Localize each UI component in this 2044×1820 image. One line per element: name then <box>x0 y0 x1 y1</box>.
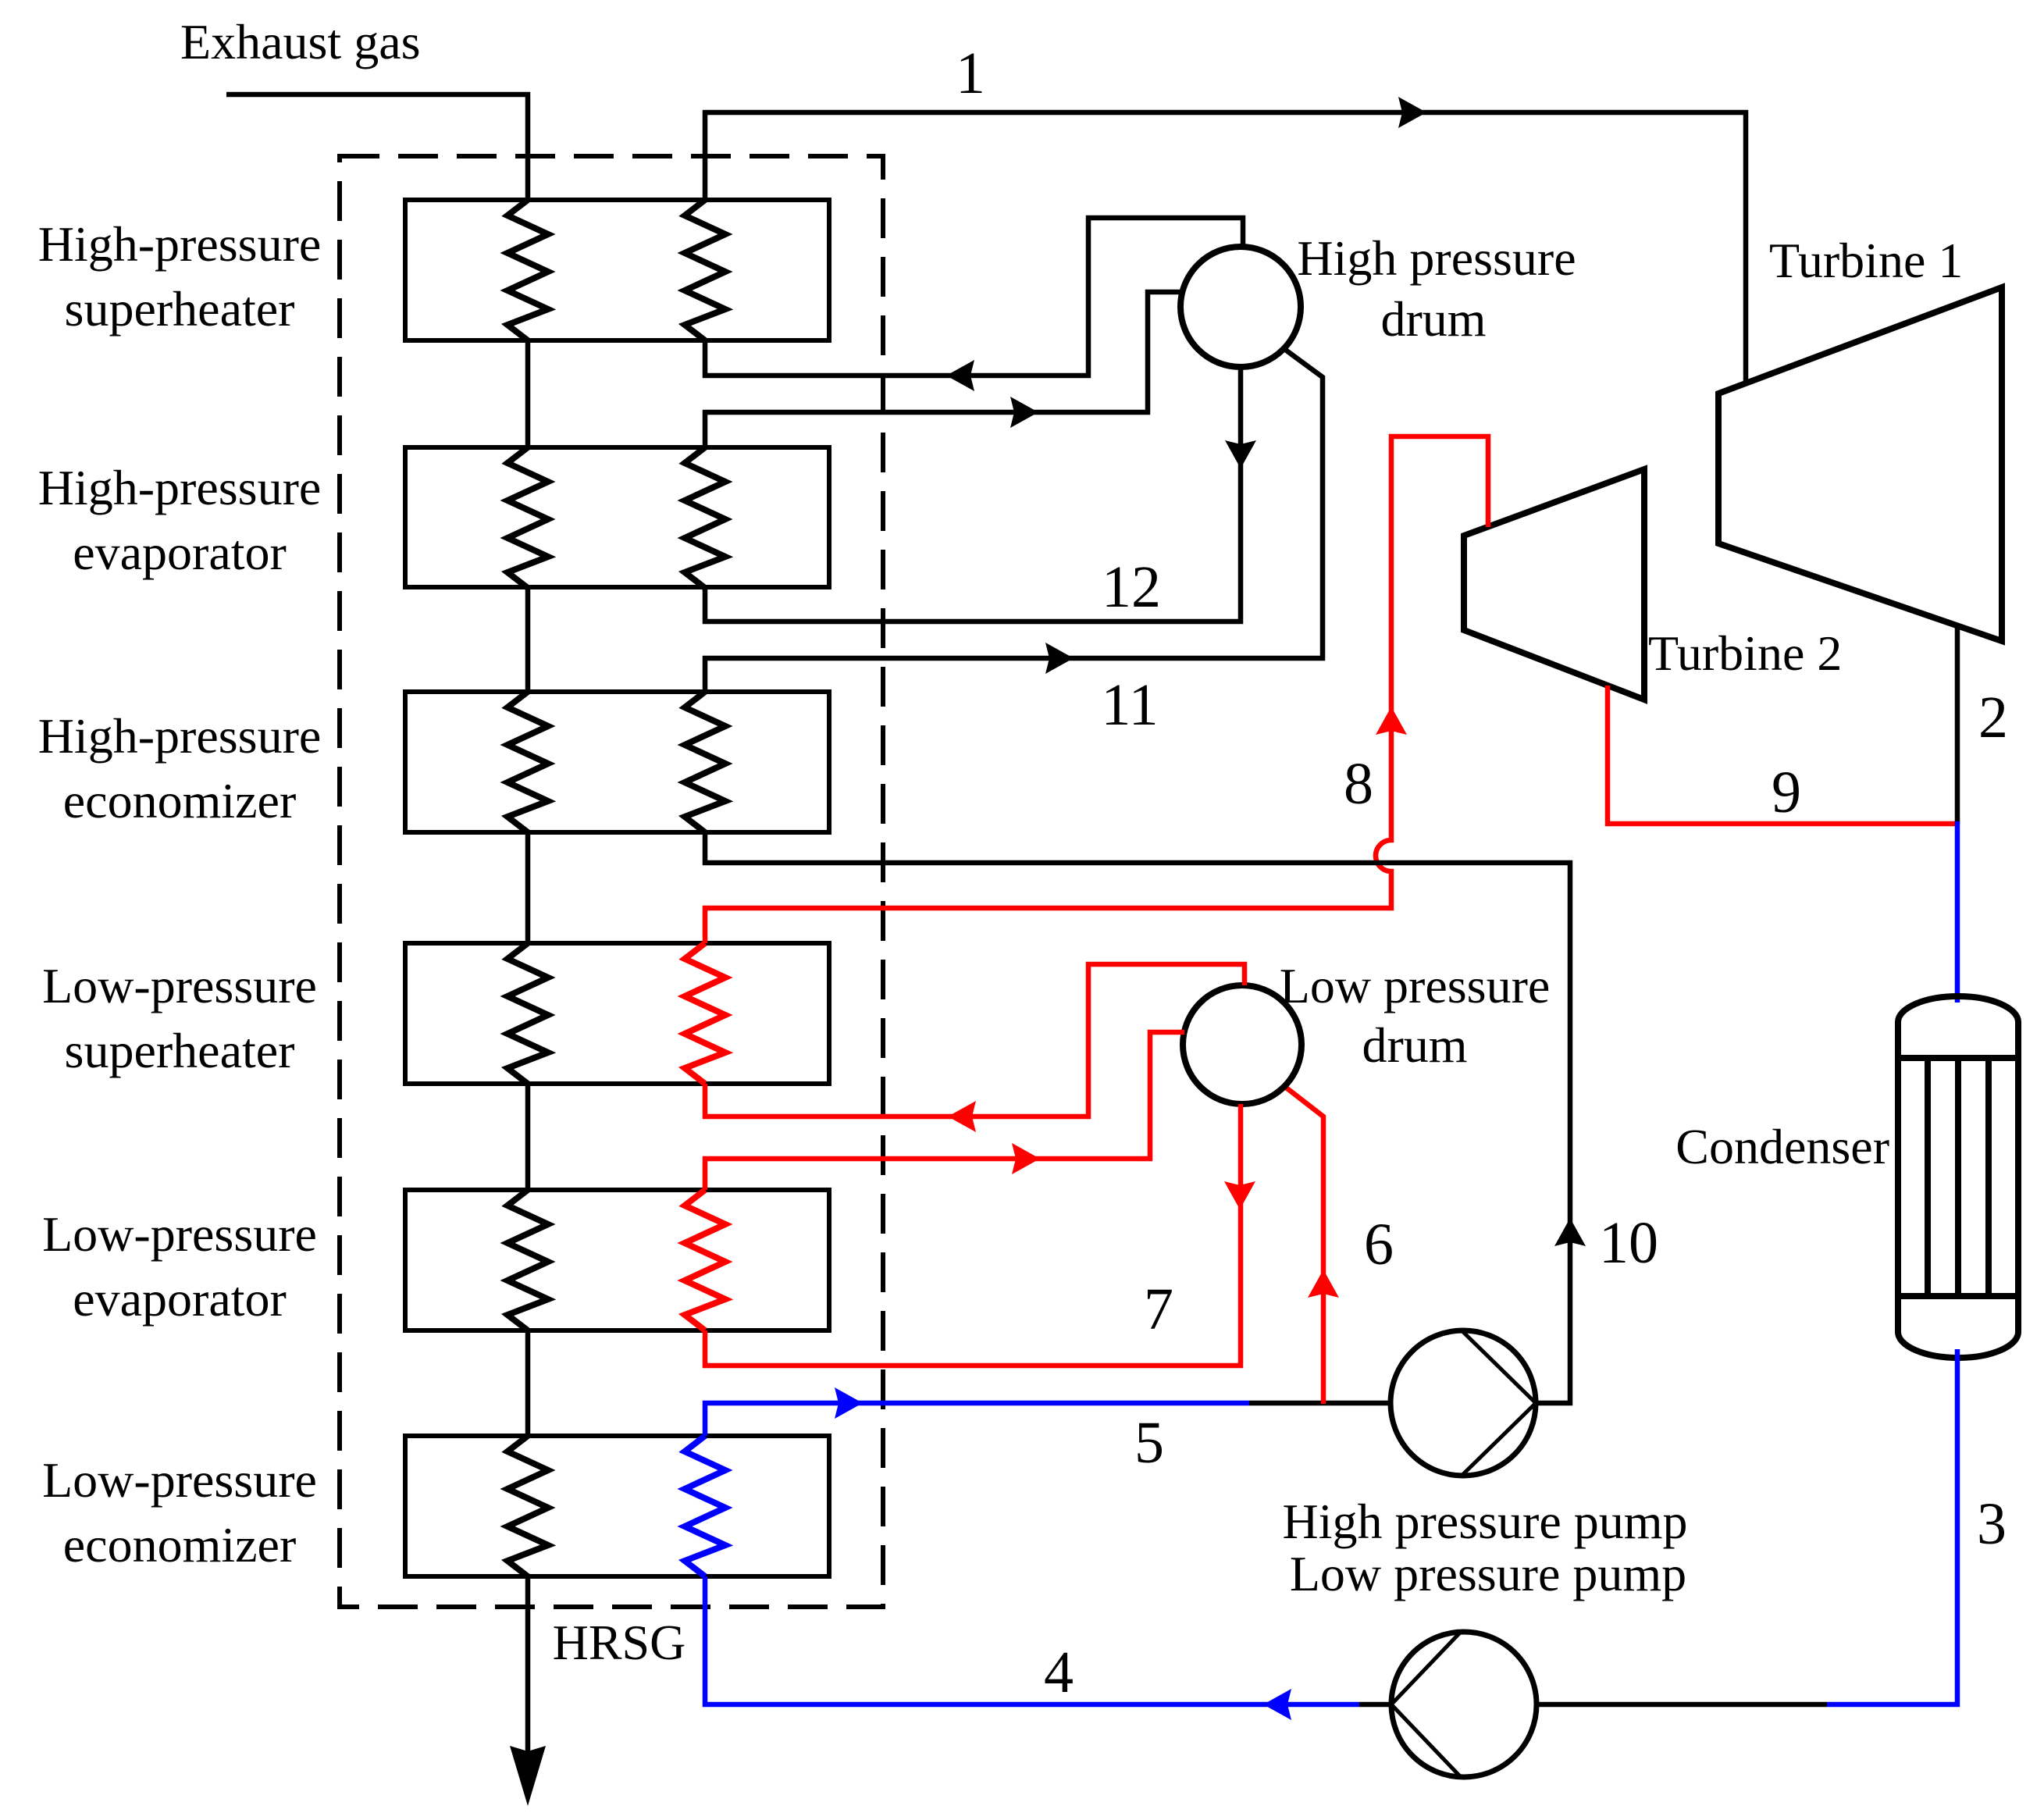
wire: LP riser evaporator to drum (red) <box>705 1032 1184 1190</box>
water coil in HP economizer <box>685 692 725 832</box>
wire: exhaust gas inlet <box>226 94 528 200</box>
gas coil in LP evaporator <box>507 1190 548 1330</box>
arrow: down on LP downcomer (red) <box>1224 1181 1255 1209</box>
wire: line 5 black segment into HP pump <box>1249 1401 1391 1406</box>
High pressure pump <box>1391 1330 1536 1476</box>
wire: condenser inlet (blue) <box>1955 821 1960 1003</box>
Low pressure drum <box>1183 985 1302 1104</box>
arrow: down on HP downcomer <box>1225 440 1256 468</box>
wire: line 4 black segment right of LP pump <box>1537 1702 1827 1708</box>
wire: line 9 Turbine 2 exhaust (red) <box>1608 686 1955 824</box>
steam coil in LP superheater (red) <box>685 943 725 1084</box>
HP superheater box <box>405 200 829 340</box>
wire: line 4 black stub left of LP pump <box>1359 1702 1391 1708</box>
svg-text:Turbine 1: Turbine 1 <box>1769 233 1963 288</box>
High pressure drum <box>1180 247 1301 367</box>
wire: line 11 HP economizer to HP drum <box>705 349 1323 692</box>
arrow: line 1 right <box>1398 97 1426 128</box>
arrow: line 5 right (blue) <box>835 1387 863 1419</box>
svg-text:Turbine 2: Turbine 2 <box>1648 625 1842 681</box>
arrow: line 10 up <box>1554 1218 1586 1246</box>
wire: line 2 Turbine 1 exhaust (black) <box>1955 626 1960 824</box>
gas coil in HP evaporator <box>507 447 548 588</box>
svg-text:9: 9 <box>1772 760 1801 825</box>
arrow: line 6 up (red) <box>1308 1270 1339 1298</box>
gas coil in HP superheater <box>507 200 548 340</box>
arrow: right on line 11 <box>1045 643 1074 674</box>
svg-text:HRSG: HRSG <box>553 1615 686 1670</box>
svg-text:6: 6 <box>1364 1212 1394 1277</box>
HP economizer box <box>405 692 829 832</box>
wire: line 10 HP pump discharge to HP economizer <box>705 832 1570 1403</box>
Turbine 1 <box>1718 287 2002 641</box>
steam coil in HP evaporator <box>685 447 725 588</box>
HP pump impeller lines <box>1462 1330 1536 1476</box>
svg-text:8: 8 <box>1344 751 1373 817</box>
svg-text:High-pressure: High-pressure <box>38 216 322 272</box>
HP evaporator box <box>405 447 829 587</box>
svg-text:drum: drum <box>1380 291 1486 347</box>
HRSG dashed boundary box <box>340 156 883 1607</box>
svg-text:Low pressure: Low pressure <box>1280 958 1551 1013</box>
svg-text:10: 10 <box>1599 1210 1658 1276</box>
LP pump impeller lines <box>1391 1632 1461 1777</box>
wire: line 3 condenser outlet (blue) <box>1827 1349 1957 1704</box>
svg-text:High pressure pump: High pressure pump <box>1282 1494 1687 1549</box>
svg-text:3: 3 <box>1977 1491 2007 1557</box>
svg-text:High pressure: High pressure <box>1297 230 1576 286</box>
arrow: gas outlet down <box>510 1746 546 1806</box>
svg-text:economizer: economizer <box>63 773 297 828</box>
svg-text:Low pressure pump: Low pressure pump <box>1290 1546 1686 1601</box>
svg-text:superheater: superheater <box>65 1023 295 1078</box>
svg-text:High-pressure: High-pressure <box>38 708 322 764</box>
wire: LP downcomer drum to evaporator (red) <box>705 1104 1241 1366</box>
svg-text:12: 12 <box>1102 554 1161 620</box>
arrow: right on HP riser <box>1010 397 1038 428</box>
Condenser shell <box>1898 996 2018 1358</box>
gas coil in HP economizer <box>507 692 548 832</box>
wire: HP downcomer drum to evaporator <box>705 367 1241 622</box>
svg-text:5: 5 <box>1134 1410 1164 1476</box>
Condenser tube sheets <box>1898 1058 2018 1296</box>
steam coil in HP superheater <box>685 200 725 340</box>
svg-text:11: 11 <box>1101 672 1158 738</box>
gas coil in LP economizer <box>507 1436 548 1576</box>
svg-text:7: 7 <box>1144 1277 1173 1342</box>
LP evaporator box <box>405 1190 829 1330</box>
svg-text:Low-pressure: Low-pressure <box>42 1452 317 1508</box>
Turbine 2 <box>1464 469 1644 700</box>
water coil in LP economizer (blue) <box>685 1436 725 1576</box>
svg-text:High-pressure: High-pressure <box>38 460 322 515</box>
svg-text:evaporator: evaporator <box>73 525 287 580</box>
steam coil in LP evaporator (red) <box>685 1190 725 1330</box>
svg-text:2: 2 <box>1978 685 2008 750</box>
arrow: line 8 up <box>1376 707 1407 735</box>
svg-text:Condenser: Condenser <box>1675 1119 1889 1174</box>
svg-text:drum: drum <box>1362 1017 1467 1073</box>
wire: line 5 blue from LP economizer top <box>705 1403 1249 1436</box>
wire: HP drum saturated steam to HP superheater <box>705 218 1243 376</box>
svg-text:economizer: economizer <box>63 1517 297 1572</box>
svg-text:4: 4 <box>1044 1640 1074 1705</box>
wire: line 8 LP steam to Turbine 2 (red, with hop over black line) <box>705 436 1488 943</box>
Low pressure pump <box>1391 1632 1537 1777</box>
LP economizer box <box>405 1436 829 1576</box>
wire: LP drum saturated steam to LP superheater (red) <box>705 964 1245 1117</box>
svg-text:superheater: superheater <box>65 281 295 337</box>
svg-text:1: 1 <box>956 41 985 106</box>
svg-text:Low-pressure: Low-pressure <box>42 1206 317 1262</box>
LP superheater box <box>405 943 829 1084</box>
gas coil in LP superheater <box>507 943 548 1084</box>
arrow: left on HP steam supply <box>946 360 974 391</box>
wire: line 1 main steam HP SH to Turbine 1 <box>705 112 1746 383</box>
svg-text:Exhaust gas: Exhaust gas <box>180 14 421 69</box>
wire: gas path vertical segments <box>525 340 531 1753</box>
arrow: right on LP riser (red) <box>1012 1143 1040 1174</box>
arrow: left on LP steam supply (red) <box>948 1101 976 1132</box>
svg-text:evaporator: evaporator <box>73 1271 287 1327</box>
svg-text:Low-pressure: Low-pressure <box>42 958 317 1013</box>
wire: HP riser evaporator to drum <box>705 292 1182 447</box>
wire: line 4 blue to LP economizer <box>705 1576 1359 1704</box>
wire: line 6 red from line 5 junction to LP drum <box>1285 1087 1323 1404</box>
arrow: line 4 left (blue) <box>1263 1689 1291 1720</box>
Condenser tubes <box>1928 1058 1989 1296</box>
